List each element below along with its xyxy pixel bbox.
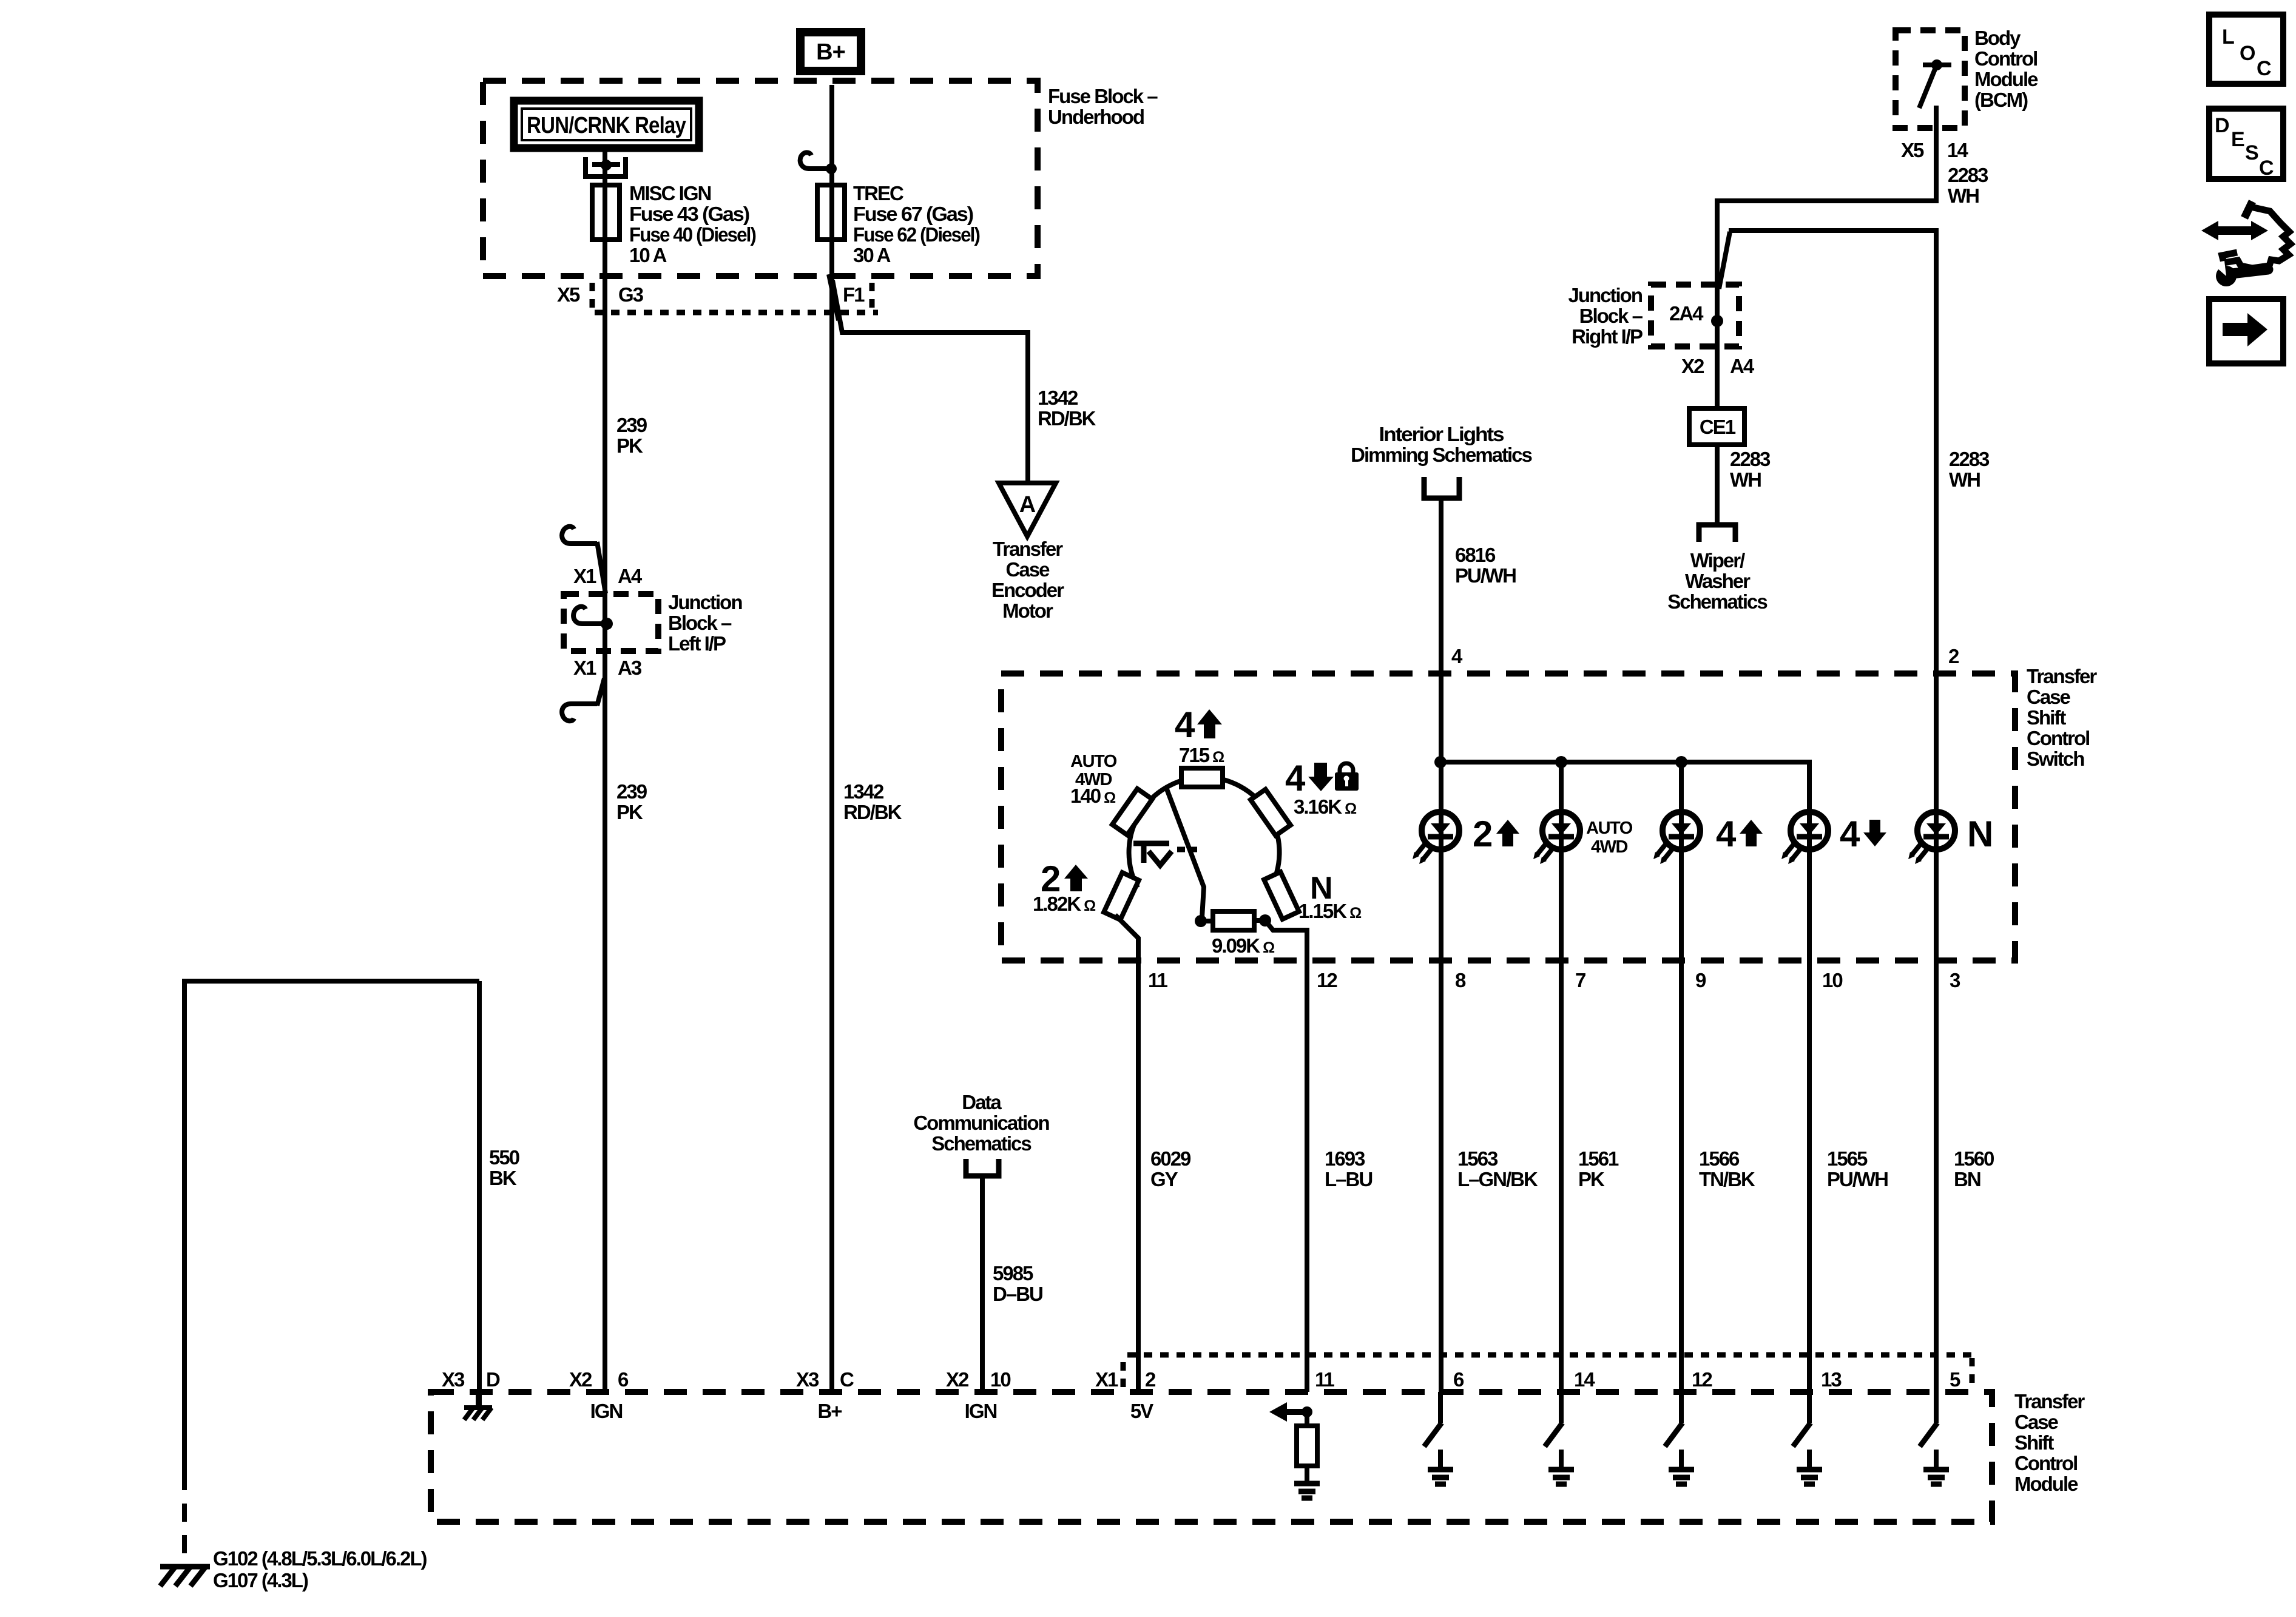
svg-text:C: C — [2257, 57, 2272, 80]
LED indicator auto 4wd — [1542, 812, 1580, 849]
svg-text:Case: Case — [1006, 558, 1050, 581]
icon DESC — [2209, 109, 2283, 179]
svg-text:WH: WH — [1949, 468, 1980, 491]
svg-text:1342: 1342 — [843, 780, 884, 803]
svg-text:E: E — [2231, 128, 2245, 151]
wire CE1 to wiper/washer — [1715, 445, 1720, 522]
svg-text:4: 4 — [1716, 814, 1737, 854]
switch to ground at module pin 14 — [1559, 1392, 1564, 1423]
svg-text:14: 14 — [1947, 139, 1968, 161]
svg-text:Block –: Block – — [1579, 305, 1643, 327]
svg-text:7: 7 — [1575, 969, 1585, 991]
wire branch to encoder motor 1342 RD/BK — [832, 280, 1028, 483]
svg-text:Schematics: Schematics — [931, 1132, 1031, 1155]
resistor 3.16K ohm (4 lo lock) — [1251, 789, 1291, 836]
icon LOC — [2209, 15, 2283, 84]
ground G102/G107 chassis symbol — [160, 1564, 210, 1570]
switch to ground at module pin 5 — [1934, 1392, 1939, 1423]
svg-text:Control: Control — [2027, 727, 2089, 749]
node rail LED2 — [1555, 756, 1567, 768]
svg-text:2: 2 — [1473, 814, 1493, 854]
wire jog at F1 — [829, 274, 839, 320]
svg-text:1560: 1560 — [1954, 1147, 1994, 1170]
wire switch pin 11 (6029 GY) — [1115, 915, 1138, 1392]
wire down from junction block — [1715, 321, 1720, 408]
svg-text:PK: PK — [1578, 1168, 1605, 1190]
svg-text:RD/BK: RD/BK — [1038, 407, 1096, 430]
svg-text:PU/WH: PU/WH — [1455, 564, 1516, 587]
svg-text:Case: Case — [2027, 686, 2071, 708]
wire 6816 PU/WH — [1439, 501, 1443, 1392]
LED indicator 4 hi — [1663, 812, 1700, 849]
svg-text:Transfer: Transfer — [2014, 1390, 2085, 1413]
svg-text:4: 4 — [1451, 645, 1463, 667]
svg-text:Block –: Block – — [668, 612, 732, 634]
svg-text:5V: 5V — [1130, 1400, 1153, 1422]
svg-text:X3: X3 — [796, 1368, 819, 1391]
svg-text:4: 4 — [1840, 814, 1860, 854]
svg-text:X2: X2 — [569, 1368, 592, 1391]
svg-text:PK: PK — [616, 801, 643, 823]
svg-text:X5: X5 — [1901, 139, 1924, 161]
svg-text:TN/BK: TN/BK — [1699, 1168, 1755, 1190]
svg-text:B+: B+ — [817, 1400, 842, 1422]
LED indicator neutral — [1917, 812, 1955, 849]
resistor 1.82K ohm (2 hi) — [1104, 873, 1139, 920]
ground at pull-down resistor — [1294, 1481, 1320, 1487]
svg-text:RUN/CRNK Relay: RUN/CRNK Relay — [527, 113, 686, 138]
svg-text:A4: A4 — [1730, 355, 1755, 377]
svg-text:Dimming Schematics: Dimming Schematics — [1351, 444, 1531, 466]
svg-text:G3: G3 — [618, 283, 644, 306]
svg-text:2: 2 — [1145, 1368, 1156, 1391]
svg-text:1566: 1566 — [1699, 1147, 1740, 1170]
svg-text:1561: 1561 — [1578, 1147, 1619, 1170]
svg-text:N: N — [1967, 814, 1993, 854]
svg-text:Underhood: Underhood — [1048, 106, 1144, 128]
node rail LED3 — [1675, 756, 1687, 768]
svg-text:Shift: Shift — [2014, 1431, 2054, 1454]
BCM driver switch symbol — [1923, 62, 1951, 67]
svg-text:1342: 1342 — [1038, 387, 1078, 409]
svg-text:(BCM): (BCM) — [1974, 89, 2028, 111]
svg-text:5985: 5985 — [993, 1262, 1033, 1284]
svg-text:6: 6 — [618, 1368, 629, 1391]
connector clip at fuse F43 — [586, 157, 626, 177]
svg-text:8: 8 — [1455, 969, 1466, 991]
ground chassis at X3-D — [476, 1392, 481, 1408]
node wiper common — [1195, 915, 1207, 927]
svg-text:AUTO: AUTO — [1070, 752, 1117, 771]
svg-text:Transfer: Transfer — [993, 538, 1063, 560]
svg-text:1565: 1565 — [1827, 1147, 1868, 1170]
svg-text:13: 13 — [1821, 1368, 1842, 1391]
svg-text:Schematics: Schematics — [1667, 590, 1767, 613]
svg-text:239: 239 — [616, 780, 647, 803]
svg-text:X3: X3 — [442, 1368, 465, 1391]
svg-text:C: C — [2259, 157, 2274, 180]
connector hook at fuse F67 — [808, 166, 829, 171]
node rail LED1 — [1434, 756, 1447, 768]
svg-text:GY: GY — [1150, 1168, 1178, 1190]
svg-text:WH: WH — [1730, 468, 1761, 491]
svg-text:CE1: CE1 — [1700, 416, 1736, 438]
svg-text:550: 550 — [489, 1146, 519, 1169]
svg-text:IGN: IGN — [965, 1400, 997, 1422]
svg-text:D–BU: D–BU — [993, 1283, 1042, 1305]
svg-text:4WD: 4WD — [1591, 837, 1628, 857]
svg-text:Control: Control — [2014, 1452, 2077, 1474]
junction node A4 — [601, 618, 613, 630]
terminal hook inside junction block — [582, 621, 602, 626]
svg-text:B+: B+ — [816, 39, 845, 65]
svg-text:X2: X2 — [1681, 355, 1704, 377]
fuse F43/F40 MISC IGN — [592, 185, 620, 240]
wire 239 PK column (relay to module X2-6) — [603, 152, 607, 1392]
svg-text:F1: F1 — [843, 283, 865, 306]
relay K RUN/CRNK — [514, 101, 699, 148]
svg-text:X2: X2 — [946, 1368, 969, 1391]
resistor 140 ohm (auto 4wd) — [1112, 789, 1152, 835]
in-line connector CE1 — [1689, 408, 1744, 445]
svg-text:S: S — [2245, 141, 2259, 164]
svg-text:30 A: 30 A — [853, 244, 891, 266]
svg-text:5: 5 — [1950, 1368, 1960, 1391]
svg-text:IGN: IGN — [590, 1400, 623, 1422]
svg-text:6816: 6816 — [1455, 544, 1496, 566]
wire LED2 column — [1559, 762, 1564, 1392]
rotary mode switch arc — [1129, 777, 1280, 889]
svg-text:Fuse 40 (Diesel): Fuse 40 (Diesel) — [629, 223, 756, 246]
svg-text:Shift: Shift — [2027, 706, 2066, 729]
body control module BCM box — [1896, 30, 1965, 128]
svg-text:Washer: Washer — [1685, 570, 1751, 592]
svg-text:Control: Control — [1974, 47, 2037, 70]
wire switch pin 12 (1693 L-BU) — [1265, 920, 1307, 1392]
connector X5 G3 band — [595, 310, 878, 316]
transfer case shift control module box — [431, 1392, 1992, 1522]
svg-text:Fuse 43 (Gas): Fuse 43 (Gas) — [629, 203, 749, 225]
svg-text:RD/BK: RD/BK — [843, 801, 902, 823]
resistor 1.15K ohm (N) — [1264, 872, 1299, 919]
svg-text:D: D — [486, 1368, 500, 1391]
junction block right I/P box — [1651, 285, 1739, 346]
svg-text:G107 (4.3L): G107 (4.3L) — [213, 1569, 308, 1592]
wire 550 BK — [477, 981, 482, 1408]
wiper adjust mark — [1133, 841, 1169, 846]
switch to ground at module pin 13 — [1807, 1392, 1812, 1423]
svg-text:A4: A4 — [618, 565, 643, 587]
wire 1342 RD/BK column (B+ to module X3-C) — [829, 85, 834, 1392]
svg-text:Module: Module — [1974, 68, 2038, 90]
svg-text:4: 4 — [1285, 758, 1306, 798]
svg-text:Case: Case — [2014, 1411, 2059, 1433]
svg-text:4: 4 — [1175, 704, 1195, 745]
svg-text:Wiper/: Wiper/ — [1690, 549, 1745, 572]
wire ground riser G102 — [184, 981, 479, 1472]
svg-text:Data: Data — [962, 1091, 1002, 1113]
svg-text:1693: 1693 — [1325, 1147, 1365, 1170]
svg-text:X1: X1 — [1095, 1368, 1118, 1391]
svg-text:L: L — [2222, 25, 2235, 49]
svg-text:Right I/P: Right I/P — [1572, 325, 1643, 348]
switch to ground at module pin 12 — [1679, 1392, 1684, 1423]
svg-text:MISC IGN: MISC IGN — [629, 182, 711, 204]
svg-text:A: A — [1019, 492, 1036, 518]
arrow to internal logic — [1269, 1402, 1287, 1422]
svg-text:WH: WH — [1948, 184, 1979, 207]
svg-text:10: 10 — [1822, 969, 1842, 991]
svg-text:X1: X1 — [573, 565, 596, 587]
svg-text:X5: X5 — [557, 283, 580, 306]
LED indicator 2 hi — [1422, 812, 1459, 849]
LED indicator 4 lo — [1791, 812, 1828, 849]
svg-text:2283: 2283 — [1948, 164, 1988, 186]
svg-text:Encoder: Encoder — [991, 579, 1064, 601]
svg-text:12: 12 — [1692, 1368, 1712, 1391]
off-page connector A to transfer case encoder motor — [999, 483, 1056, 536]
fuse F67/F62 TREC — [817, 185, 845, 240]
svg-text:BN: BN — [1954, 1168, 1980, 1190]
resistor 715 ohm (4 hi) — [1181, 768, 1223, 787]
svg-text:9: 9 — [1695, 969, 1706, 991]
svg-text:11: 11 — [1148, 969, 1168, 991]
svg-text:12: 12 — [1317, 969, 1337, 991]
B+ power symbol — [800, 32, 861, 71]
connector X1 A4 terminal — [571, 541, 597, 546]
svg-text:Left I/P: Left I/P — [668, 632, 726, 655]
wire 5985 D-BU — [980, 1176, 985, 1392]
wire LED supply rail — [1440, 762, 1809, 1392]
svg-text:10 A: 10 A — [629, 244, 667, 266]
svg-text:2: 2 — [1948, 645, 1959, 667]
svg-text:14: 14 — [1574, 1368, 1595, 1391]
svg-text:Junction: Junction — [668, 591, 742, 613]
transfer case shift control switch box — [1001, 673, 2015, 960]
svg-text:Switch: Switch — [2027, 748, 2084, 770]
junction block left I/P box — [564, 594, 658, 651]
svg-text:1563: 1563 — [1457, 1147, 1498, 1170]
wire LED3 column — [1679, 762, 1684, 1392]
svg-text:6029: 6029 — [1150, 1147, 1191, 1170]
svg-text:10: 10 — [990, 1368, 1010, 1391]
svg-text:Body: Body — [1974, 27, 2021, 49]
svg-text:Fuse 62 (Diesel): Fuse 62 (Diesel) — [853, 223, 980, 246]
wire branch 2283 WH to switch pin 2 — [1719, 232, 1730, 289]
svg-text:Junction: Junction — [1568, 284, 1643, 306]
icon hand with double arrow and wrench — [2215, 226, 2255, 235]
svg-text:Communication: Communication — [913, 1112, 1049, 1134]
svg-text:6: 6 — [1453, 1368, 1464, 1391]
wiper arm — [1166, 788, 1204, 917]
svg-text:Transfer: Transfer — [2027, 665, 2097, 687]
wire to junction block right — [1717, 201, 1936, 323]
svg-text:AUTO: AUTO — [1586, 819, 1633, 838]
svg-text:X1: X1 — [573, 657, 596, 679]
svg-text:A3: A3 — [618, 657, 642, 679]
svg-text:O: O — [2240, 42, 2255, 65]
wire BCM output 2283 WH — [1934, 106, 1939, 203]
connector X1 band — [1127, 1352, 1972, 1358]
svg-text:PU/WH: PU/WH — [1827, 1168, 1888, 1190]
svg-text:L–GN/BK: L–GN/BK — [1457, 1168, 1538, 1190]
svg-text:Module: Module — [2014, 1473, 2078, 1495]
svg-text:G102 (4.8L/5.3L/6.0L/6.2L): G102 (4.8L/5.3L/6.0L/6.2L) — [213, 1547, 427, 1570]
pull-up node at pin 11 — [1302, 1406, 1312, 1417]
off-page bracket to wiper/washer schematics — [1699, 525, 1735, 542]
svg-text:D: D — [2215, 114, 2230, 137]
fuse block underhood box — [483, 81, 1038, 276]
svg-text:Fuse Block –: Fuse Block – — [1048, 85, 1158, 107]
svg-text:11: 11 — [1315, 1368, 1335, 1391]
svg-text:PK: PK — [616, 434, 643, 457]
resistor pull-down at pin 11 — [1297, 1426, 1317, 1466]
node N side — [1259, 914, 1271, 927]
svg-text:Motor: Motor — [1002, 599, 1053, 622]
svg-text:C: C — [840, 1368, 854, 1391]
svg-text:TREC: TREC — [853, 182, 903, 204]
svg-text:3: 3 — [1950, 969, 1960, 991]
svg-text:L–BU: L–BU — [1325, 1168, 1372, 1190]
svg-text:2283: 2283 — [1949, 448, 1990, 470]
icon forward arrow — [2209, 299, 2283, 363]
resistor 9.09K ohm — [1201, 919, 1213, 923]
svg-text:239: 239 — [616, 414, 647, 436]
switch to ground at module pin 6 — [1438, 1392, 1443, 1423]
svg-text:Interior Lights: Interior Lights — [1379, 423, 1504, 445]
svg-text:2A4: 2A4 — [1669, 302, 1704, 325]
svg-text:Fuse 67 (Gas): Fuse 67 (Gas) — [853, 203, 973, 225]
svg-text:2283: 2283 — [1730, 448, 1771, 470]
svg-text:BK: BK — [489, 1167, 517, 1189]
